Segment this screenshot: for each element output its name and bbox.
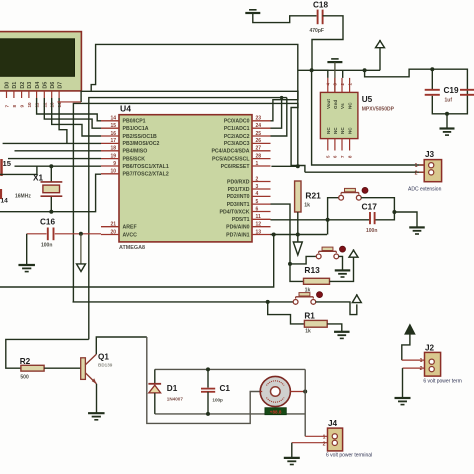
U4 pin 23 PC0/ADC0 [224, 116, 271, 125]
svg-text:PD2/INT0: PD2/INT0 [227, 194, 250, 200]
U4 pin 26 PC3/ADC3 [224, 138, 271, 147]
wire U5 Vout down to J3 pin 1 [312, 70, 425, 165]
svg-text:15: 15 [3, 159, 12, 168]
wire PD3 to button2 net [271, 204, 304, 281]
microcontroller U4 ATMEGA8 [119, 104, 252, 251]
svg-text:17: 17 [110, 138, 116, 144]
wire motor loop right to J4 [304, 369, 306, 436]
svg-text:Vs: Vs [340, 103, 345, 109]
U4 pin 9 PB6/TOSC1/XTAL1 [101, 161, 169, 170]
node C1 bottom junction [206, 412, 210, 416]
LCD pin 13 D6 [50, 82, 56, 108]
power arrow above J2 [402, 325, 415, 361]
ground under C19 [440, 114, 455, 135]
svg-text:D0: D0 [5, 82, 11, 89]
wire top rail [91, 44, 298, 166]
wire button1 left leg [328, 198, 339, 220]
connector J4 [323, 419, 373, 459]
svg-text:PB6/TOSC1/XTAL1: PB6/TOSC1/XTAL1 [123, 164, 169, 170]
svg-text:NC: NC [333, 127, 338, 134]
capacitor C16 100n [27, 218, 101, 249]
svg-text:23: 23 [256, 116, 262, 122]
node button2 branch [288, 262, 292, 266]
power terminal down arrow AVCC [77, 234, 86, 272]
U4 pin 6 PD4/T0/XCK [220, 206, 271, 215]
resistor R21 1k [295, 181, 322, 242]
U4 pin 14 PB0/ICP1 [101, 116, 146, 125]
svg-text:C1: C1 [220, 384, 231, 393]
ground right of C17 [394, 212, 424, 234]
svg-text:PD1/TXD: PD1/TXD [228, 187, 250, 193]
wire long bus to button3 [73, 301, 294, 303]
svg-text:100n: 100n [366, 228, 377, 234]
svg-text:D3: D3 [27, 82, 33, 89]
node C17 branch junction [326, 218, 330, 222]
ground above U5 [327, 59, 342, 93]
svg-text:C19: C19 [444, 86, 459, 95]
LCD pin 9 D2 [20, 82, 26, 108]
wire J3 pin 2 [305, 171, 424, 173]
U4 pin 21 AREF [101, 222, 137, 231]
U4 pin 19 PB5/SCK [101, 153, 145, 162]
svg-text:21: 21 [110, 222, 116, 228]
LCD module LM016L body [0, 32, 81, 91]
LCD pin 10 D3 [27, 82, 33, 108]
svg-text:13: 13 [256, 229, 262, 235]
svg-text:12: 12 [256, 222, 262, 228]
ground under button2 [335, 269, 351, 271]
svg-text:PC3/ADC3: PC3/ADC3 [224, 141, 250, 147]
push button 3 [293, 300, 298, 305]
wire XTAL2 net [0, 174, 101, 212]
wire R13 right to power arrow [330, 257, 354, 281]
svg-text:7: 7 [5, 105, 10, 108]
motor M1 [260, 376, 305, 406]
LCD pin 12 D5 [42, 82, 48, 108]
svg-text:PD5/T1: PD5/T1 [232, 217, 250, 223]
svg-text:11: 11 [256, 214, 262, 220]
node R1 branch junction [266, 300, 270, 304]
power arrow at R13 [349, 250, 358, 257]
svg-text:R1: R1 [304, 312, 315, 321]
svg-text:AREF: AREF [123, 225, 137, 231]
svg-text:ADC extension: ADC extension [408, 187, 442, 193]
svg-text:PD3/INT1: PD3/INT1 [227, 202, 250, 208]
U4 pin 24 PC1/ADC1 [224, 123, 271, 132]
wire left component to U4 PB4 [15, 150, 102, 152]
svg-text:28: 28 [256, 153, 262, 159]
svg-text:15: 15 [110, 123, 116, 129]
svg-text:C18: C18 [313, 0, 328, 9]
U4 pin 5 PD3/INT1 [227, 199, 271, 208]
wire PC6 RESET to R21 top rail [271, 165, 297, 167]
svg-text:PD4/T0/XCK: PD4/T0/XCK [220, 209, 250, 215]
LCD screen [0, 39, 75, 77]
svg-text:1k: 1k [304, 202, 310, 208]
wire J2 pin2 to ground [403, 368, 425, 397]
ground under C16 [18, 234, 35, 272]
capacitor C19 right element [444, 86, 474, 103]
svg-text:24: 24 [256, 123, 262, 129]
svg-text:BD139: BD139 [98, 363, 113, 368]
node AVCC junction [79, 232, 83, 236]
svg-text:D2: D2 [20, 82, 26, 89]
wire Q1 collector up [96, 337, 147, 354]
U4 pin 2 PD0/RXD [227, 176, 271, 185]
svg-text:1uf: 1uf [445, 98, 453, 104]
wire J4 pin2 to ground [292, 443, 328, 458]
svg-text:PB5/SCK: PB5/SCK [123, 156, 146, 162]
svg-text:+88.8: +88.8 [270, 409, 282, 414]
wire button1 right to ground branch [361, 198, 394, 220]
motor speed display [265, 408, 286, 415]
wire branch down to PD7 row [327, 220, 329, 235]
svg-text:1: 1 [323, 434, 326, 440]
svg-text:10: 10 [110, 169, 116, 175]
node U5 rail junction right [363, 68, 367, 72]
wire LCD D7 to U4 PB3 [59, 98, 67, 143]
svg-text:PD0/RXD: PD0/RXD [227, 179, 250, 185]
svg-text:NC: NC [348, 127, 353, 134]
ground under R1 [334, 331, 350, 333]
svg-text:6 volt power terminal: 6 volt power terminal [326, 453, 372, 459]
wire to R1 left [268, 302, 305, 324]
U4 pin 12 PD6/AIN0 [226, 222, 270, 231]
wire R1 right to ground [327, 324, 342, 331]
wire branch to PC2 [271, 98, 287, 136]
diode D1 1N4007 [148, 369, 183, 414]
connector J3 [408, 150, 442, 192]
svg-text:16: 16 [110, 131, 116, 137]
svg-text:100n: 100n [41, 243, 52, 249]
svg-text:PB2/SS/OC1B: PB2/SS/OC1B [123, 134, 158, 140]
svg-text:D6: D6 [50, 82, 56, 89]
svg-text:8: 8 [12, 105, 17, 108]
svg-text:U4: U4 [120, 104, 131, 114]
svg-text:PB7/TOSC2/XTAL2: PB7/TOSC2/XTAL2 [123, 172, 169, 178]
U4 pin 3 PD1/TXD [228, 184, 271, 193]
crystal X1 16MHz [15, 166, 62, 212]
svg-text:J3: J3 [425, 150, 435, 159]
wire branch to PC1 [271, 98, 282, 129]
svg-text:4: 4 [256, 191, 259, 197]
svg-text:470pF: 470pF [310, 28, 324, 34]
push button 2 [316, 254, 321, 259]
wire button2 right to ground [339, 256, 343, 269]
node C19 top junction [430, 67, 434, 71]
svg-text:5: 5 [256, 199, 259, 205]
svg-text:D1: D1 [167, 384, 178, 393]
svg-text:2: 2 [256, 176, 259, 182]
node C1 top junction [206, 367, 210, 371]
svg-text:R13: R13 [304, 265, 320, 275]
wire to button2 left contact [290, 256, 316, 264]
svg-text:1N4007: 1N4007 [167, 397, 184, 402]
node PD7 branch junction [272, 233, 276, 237]
svg-text:PD6/AIN0: PD6/AIN0 [226, 225, 249, 231]
pressure sensor U5 MPXV5050DP [320, 78, 394, 158]
svg-text:1: 1 [415, 163, 418, 169]
node U5 rail junction left [310, 68, 314, 72]
node motor right junction [303, 390, 307, 394]
U4 pin 4 PD2/INT0 [227, 191, 271, 200]
push button 1 [339, 195, 344, 200]
resistor R2 500 [20, 357, 44, 380]
U4 pin 27 PC4/ADC4/SDA [211, 146, 270, 155]
svg-text:J2: J2 [425, 344, 435, 353]
ground under J2 [395, 397, 411, 399]
node PC1 branch [280, 96, 283, 99]
wire button3 right to power arrow [316, 302, 357, 315]
svg-text:D1: D1 [12, 82, 18, 89]
svg-text:PB4/MISO: PB4/MISO [123, 149, 148, 155]
svg-text:6: 6 [256, 206, 259, 212]
wire to C19 loop [365, 69, 468, 114]
node C19 bottom junction [445, 112, 449, 116]
svg-text:PB1/OC1A: PB1/OC1A [123, 126, 149, 132]
U4 pin 10 PB7/TOSC2/XTAL2 [101, 169, 169, 178]
svg-text:Vout: Vout [326, 99, 331, 109]
node crystal top junction [49, 164, 53, 168]
wire collector loop to motor left [147, 337, 260, 423]
svg-text:27: 27 [256, 146, 262, 152]
wire LCD D5 to U4 PB1 [44, 98, 101, 128]
svg-text:10: 10 [27, 102, 32, 108]
capacitor C1 100p [201, 369, 230, 414]
svg-text:C17: C17 [362, 202, 378, 212]
wire base drive from bus [6, 339, 89, 368]
capacitor C17 100n [362, 202, 378, 234]
svg-text:3: 3 [256, 184, 259, 190]
svg-text:PB3/MOSI/OC2: PB3/MOSI/OC2 [123, 141, 160, 147]
power terminal down arrow below R21 [293, 242, 302, 255]
capacitor C14 partial at left edge [1, 189, 9, 205]
U4 pin 17 PB3/MOSI/OC2 [101, 138, 160, 147]
power arrow at button3 [352, 295, 361, 303]
svg-text:PC1/ADC1: PC1/ADC1 [224, 126, 250, 132]
svg-text:U5: U5 [362, 95, 373, 104]
capacitor C19 left element [425, 69, 440, 95]
svg-text:NC: NC [340, 127, 345, 134]
svg-text:9: 9 [20, 105, 25, 108]
svg-text:Gnd: Gnd [333, 100, 338, 109]
wire LCD D6 to U4 PB2 [52, 98, 101, 136]
svg-text:D7: D7 [57, 82, 63, 89]
wire LCD D4 to U4 PB0 [37, 98, 101, 121]
power arrow above U5 [376, 40, 385, 71]
svg-text:PC6/RESET: PC6/RESET [221, 164, 251, 170]
wire left bus to U4 PB3 [3, 142, 101, 144]
svg-text:AVCC: AVCC [123, 232, 138, 238]
svg-text:PC4/ADC4/SDA: PC4/ADC4/SDA [211, 149, 249, 155]
svg-text:J4: J4 [328, 419, 338, 428]
ground under Q1 [88, 412, 105, 414]
svg-text:PD7/AIN1: PD7/AIN1 [226, 232, 249, 238]
connector J2 [420, 344, 462, 385]
transistor Q1 BD139 [81, 353, 113, 384]
node button1 ground junction [392, 210, 396, 214]
svg-text:PC0/ADC0: PC0/ADC0 [224, 119, 250, 125]
U4 pin 11 PD5/T1 [232, 214, 271, 223]
wire XTAL1 net [0, 166, 101, 174]
U4 pin 16 PB2/SS/OC1B [101, 131, 157, 140]
U4 pin 25 PC2/ADC2 [224, 131, 271, 140]
capacitor C18 [310, 0, 344, 70]
svg-text:D4: D4 [35, 82, 41, 89]
LCD pin 7 D0 [5, 82, 11, 108]
wire over U4 top C to J3 pin 2 and button vertical [73, 103, 305, 302]
LCD pin 14 D7 [57, 82, 63, 108]
svg-text:ATMEGA8: ATMEGA8 [119, 245, 145, 251]
wire PD5 to C17 left [271, 219, 371, 221]
svg-text:25: 25 [256, 131, 262, 137]
svg-text:26: 26 [256, 138, 262, 144]
node crystal bottom junction [49, 210, 53, 214]
U4 pin 15 PB1/OC1A [101, 123, 149, 132]
U4 pin 18 PB4/MISO [101, 146, 147, 155]
U4 pin 20 AVCC [101, 229, 137, 238]
wire motor supply loop bottom [155, 413, 305, 415]
svg-text:18: 18 [110, 146, 116, 152]
svg-text:14: 14 [110, 116, 116, 122]
svg-text:16MHz: 16MHz [15, 194, 31, 200]
svg-text:6 volt power term: 6 volt power term [423, 379, 461, 385]
svg-text:PB0/ICP1: PB0/ICP1 [123, 119, 146, 125]
svg-text:20: 20 [110, 229, 116, 235]
U4 pin 13 PD7/AIN1 [226, 229, 270, 238]
U4 pin 28 PC5/ADC5/SCL [212, 153, 270, 162]
svg-text:2: 2 [323, 441, 326, 447]
wire left component to U4 PB5 [8, 158, 101, 160]
wire over U4 top B to PC1 PC2 and Q1 base vertical [89, 98, 287, 340]
wire PD7 branch to long bus [0, 235, 274, 288]
svg-text:C16: C16 [40, 218, 55, 227]
svg-text:500: 500 [20, 375, 29, 381]
wire stub red link A [58, 101, 82, 103]
svg-text:MPXV5050DP: MPXV5050DP [362, 107, 395, 113]
svg-text:X1: X1 [33, 174, 43, 183]
ground under J4 [284, 457, 300, 459]
svg-text:D5: D5 [43, 82, 49, 89]
wire U5 supply rail [298, 70, 380, 78]
svg-text:1: 1 [420, 358, 423, 364]
svg-text:Q1: Q1 [98, 353, 109, 362]
wire PD7 net [271, 234, 328, 236]
svg-text:1k: 1k [305, 329, 311, 335]
node R21 bottom PD7 junction [296, 233, 300, 237]
wire Q1 emitter to ground [96, 384, 98, 413]
svg-text:NC: NC [326, 127, 331, 134]
ground top center [245, 10, 316, 23]
svg-text:2: 2 [415, 171, 418, 177]
wire R2 to Q1 base [44, 367, 81, 369]
wire over U4 top A to PC0 [81, 91, 298, 121]
resistor R13 1k [304, 265, 330, 293]
capacitor C15 partial at left edge [2, 159, 12, 176]
svg-text:PC2/ADC2: PC2/ADC2 [224, 134, 250, 140]
wire U5 Vout up [312, 70, 328, 78]
svg-text:19: 19 [110, 153, 116, 159]
svg-text:2: 2 [420, 366, 423, 372]
svg-text:1: 1 [256, 161, 259, 167]
svg-text:100p: 100p [212, 398, 223, 403]
LCD pin 11 D4 [35, 82, 41, 108]
U4 pin 1 PC6/RESET [221, 161, 271, 170]
resistor R1 1k [304, 312, 327, 335]
svg-text:PC5/ADC5/SCL: PC5/ADC5/SCL [212, 156, 250, 162]
svg-text:R21: R21 [305, 191, 321, 201]
wire J4 pin1 [305, 435, 327, 437]
wire J2 pin1 [402, 359, 425, 361]
LCD pin 8 D1 [12, 82, 18, 108]
svg-text:9: 9 [113, 161, 116, 167]
wire motor supply loop top [155, 368, 305, 370]
svg-text:NC: NC [348, 102, 353, 109]
node R21 top junction [296, 164, 300, 168]
